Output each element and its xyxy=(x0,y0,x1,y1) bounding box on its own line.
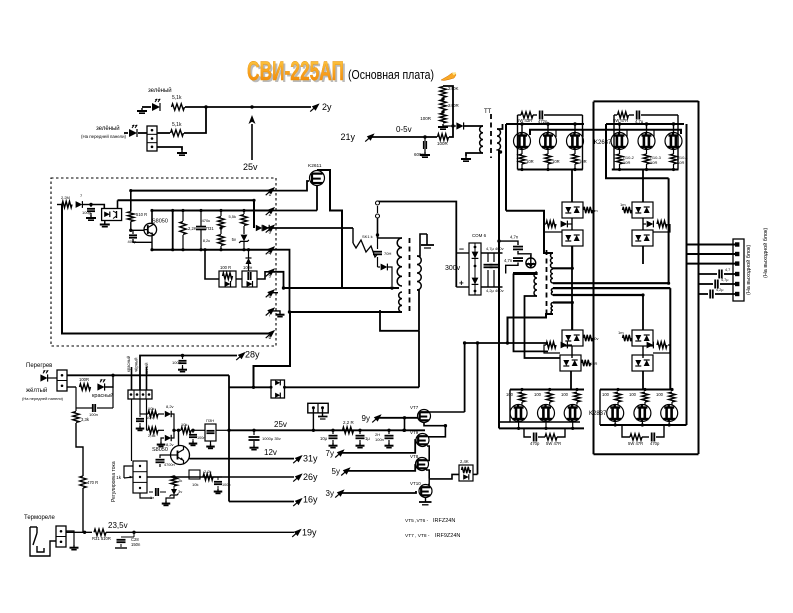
wire source bus 1 xyxy=(518,169,583,171)
wire xyxy=(91,205,104,209)
pin arrow 4 xyxy=(267,246,275,253)
svg-text:4,7μ: 4,7μ xyxy=(635,119,644,124)
resistor 2.2k xyxy=(203,474,213,480)
svg-text:+: + xyxy=(459,279,464,288)
junction dots power xyxy=(520,168,523,171)
svg-text:470к: 470к xyxy=(202,218,211,223)
wire xyxy=(613,115,615,170)
wire xyxy=(130,222,132,231)
resistor R10-1 10R xyxy=(673,150,675,155)
MOSFET Q bank1-3 xyxy=(567,133,584,150)
svg-text:1m: 1m xyxy=(592,208,598,213)
junction xyxy=(252,386,255,389)
capacitor 100n xyxy=(192,430,194,433)
resistor 100R xyxy=(440,113,446,123)
junction xyxy=(376,233,379,236)
thermal switch xyxy=(36,527,38,533)
arrow 2y xyxy=(312,103,320,110)
resistor 470k xyxy=(218,217,224,228)
svg-text:9y: 9y xyxy=(362,414,370,423)
wire xyxy=(599,390,601,426)
junction xyxy=(252,429,255,432)
capacitor 1000μ 35v xyxy=(253,430,255,435)
main transformer secondary S3 xyxy=(551,289,553,296)
diode block A xyxy=(562,202,583,218)
wire xyxy=(57,204,62,206)
aux primary lower xyxy=(399,292,402,312)
wire xyxy=(582,124,584,170)
svg-text:100н: 100н xyxy=(222,483,230,487)
svg-text:100: 100 xyxy=(602,392,610,397)
wire bus B xyxy=(505,124,507,211)
capacitor 1μ xyxy=(358,429,361,432)
wire xyxy=(254,312,291,387)
wire xyxy=(428,426,445,437)
svg-text:SK1 k: SK1 k xyxy=(362,234,373,239)
wire xyxy=(48,377,57,379)
aux core xyxy=(409,238,411,314)
ground xyxy=(465,156,467,159)
wire pin5 external xyxy=(272,272,284,288)
resistor + diode xyxy=(546,342,556,348)
diode xyxy=(246,258,252,264)
wire pin3 external xyxy=(272,227,354,229)
resistor 10R xyxy=(574,150,576,155)
svg-text:1н: 1н xyxy=(150,496,154,500)
svg-text:0-5v: 0-5v xyxy=(396,125,412,134)
svg-text:VT10: VT10 xyxy=(410,481,421,486)
svg-text:10R: 10R xyxy=(650,160,657,165)
arrow 9y xyxy=(374,414,382,421)
svg-text:S8050: S8050 xyxy=(152,447,168,453)
svg-text:12v: 12v xyxy=(264,448,277,457)
resistor R10-3 10R xyxy=(646,150,648,155)
svg-text:4,7: 4,7 xyxy=(725,268,730,272)
svg-text:(На передней панели): (На передней панели) xyxy=(22,396,64,401)
main transformer secondary S2 xyxy=(551,269,553,283)
wire xyxy=(606,124,669,178)
svg-text:100n: 100n xyxy=(375,437,384,442)
wire xyxy=(285,386,420,388)
svg-text:300v: 300v xyxy=(445,265,461,272)
wire xyxy=(158,413,164,415)
junction xyxy=(390,286,393,289)
wire xyxy=(443,86,453,126)
wire 16y line xyxy=(229,501,294,503)
wire xyxy=(642,246,644,264)
svg-text:70Н: 70Н xyxy=(384,251,391,256)
ground xyxy=(141,108,143,111)
wire VT7 top xyxy=(429,411,465,413)
resistor 100R xyxy=(438,134,449,140)
svg-text:П31: П31 xyxy=(206,226,214,231)
LED yellow (жёлтый) xyxy=(40,374,47,381)
wire xyxy=(378,417,418,419)
resistor 10R xyxy=(521,150,523,155)
wire source bus 2 xyxy=(612,169,679,171)
wire pin6 external xyxy=(272,292,279,294)
ground xyxy=(139,426,141,429)
current probe xyxy=(526,258,536,268)
wire gate bus 3 xyxy=(510,389,584,391)
svg-text:100н: 100н xyxy=(172,360,181,365)
wire xyxy=(427,446,430,461)
svg-text:5,5k: 5,5k xyxy=(228,214,236,219)
svg-text:5y: 5y xyxy=(332,467,340,476)
wire xyxy=(418,331,420,388)
wire xyxy=(509,390,511,423)
diode block D xyxy=(632,230,653,246)
wire gate stub xyxy=(626,130,628,137)
ground xyxy=(165,501,167,504)
MOSFET Q bank2-2 xyxy=(638,133,655,150)
twin connector xyxy=(308,403,328,413)
capacitor 600p xyxy=(424,137,426,141)
LED green front panel (зелёный) xyxy=(129,129,137,137)
wire xyxy=(157,132,170,134)
LED red (красный) xyxy=(97,383,104,390)
svg-text:10v: 10v xyxy=(592,336,598,341)
svg-text:2,4K: 2,4K xyxy=(460,459,469,464)
wire bus4 xyxy=(152,249,272,251)
svg-text:510 R: 510 R xyxy=(136,212,147,217)
wire xyxy=(138,132,147,134)
wire xyxy=(378,202,457,288)
svg-text:5W 47R: 5W 47R xyxy=(613,118,628,123)
ground xyxy=(217,489,219,492)
snubber resistor 5W 47R xyxy=(614,114,617,116)
svg-text:красный: красный xyxy=(92,392,113,399)
junction xyxy=(227,429,230,432)
wire xyxy=(131,367,133,390)
wire xyxy=(570,371,572,390)
junction xyxy=(132,531,135,534)
wire pin2 xyxy=(272,210,318,212)
svg-text:VT9: VT9 xyxy=(410,430,419,435)
svg-text:4700н: 4700н xyxy=(164,463,175,467)
wire pin4 external xyxy=(272,250,290,312)
svg-text:100R: 100R xyxy=(437,141,449,146)
svg-text:100R: 100R xyxy=(420,116,432,121)
svg-text:3y: 3y xyxy=(326,489,334,498)
ground xyxy=(73,545,75,548)
svg-text:3v: 3v xyxy=(178,489,182,494)
resistor 2.2K xyxy=(180,222,186,235)
wire xyxy=(425,498,427,503)
svg-text:10n: 10n xyxy=(146,415,153,420)
snubber capacitor 470p xyxy=(524,428,531,437)
svg-text:VT7: VT7 xyxy=(410,405,419,410)
wire bus A xyxy=(498,150,500,428)
MOSFET Q bank1-1 xyxy=(514,133,531,150)
zener 8.2v xyxy=(165,411,171,417)
wire xyxy=(506,263,518,274)
TT secondary xyxy=(497,129,501,150)
wire xyxy=(377,218,379,238)
svg-text:2,2k: 2,2k xyxy=(204,469,212,474)
resistor 10k xyxy=(181,427,191,433)
wire xyxy=(140,413,148,415)
wire gate distribution bus xyxy=(530,130,681,135)
power arrow 25v xyxy=(251,124,253,160)
svg-text:3: 3 xyxy=(269,230,272,236)
resistor 2.4k xyxy=(148,427,158,433)
wire xyxy=(146,367,148,390)
MOSFET Q bank2-1 xyxy=(611,133,628,150)
pin arrow 7 xyxy=(267,307,275,314)
svg-text:K2611: K2611 xyxy=(308,163,322,169)
resistor + diode xyxy=(546,221,556,227)
svg-text:100: 100 xyxy=(534,392,542,397)
svg-text:5W 47R: 5W 47R xyxy=(628,441,643,446)
svg-text:R31 510R: R31 510R xyxy=(92,536,111,541)
wire xyxy=(157,147,182,150)
svg-text:жёлтый: жёлтый xyxy=(26,387,47,394)
svg-text:470p: 470p xyxy=(530,441,540,446)
current transformer TT primary xyxy=(480,126,483,153)
wire xyxy=(312,408,314,431)
wire xyxy=(133,239,152,242)
wire xyxy=(521,124,523,133)
resistor 8.2k xyxy=(218,235,224,246)
main transformer secondary S4 xyxy=(551,303,553,315)
pin arrow 3 xyxy=(267,224,275,231)
wire xyxy=(456,286,469,288)
svg-text:21y: 21y xyxy=(340,132,355,142)
capacitor 4700n xyxy=(156,459,165,461)
arrow 19y xyxy=(294,529,302,536)
svg-text:2,4k: 2,4k xyxy=(148,433,156,438)
wire base xyxy=(131,229,144,231)
box capacitor 100n with diode xyxy=(242,271,257,287)
zener 3v xyxy=(171,489,177,495)
spark gap RV xyxy=(352,228,354,243)
wire xyxy=(104,221,106,224)
svg-text:26y: 26y xyxy=(303,472,318,482)
capacitor 70n xyxy=(377,235,379,249)
MOSFET VT10 xyxy=(419,485,432,498)
svg-text:S8050: S8050 xyxy=(152,219,168,225)
wire xyxy=(117,200,119,208)
wire xyxy=(172,211,174,250)
diode block C xyxy=(632,202,653,218)
svg-text:2k: 2k xyxy=(178,478,182,483)
wire xyxy=(236,278,242,280)
ground xyxy=(181,150,183,153)
arrow 31y xyxy=(295,455,303,462)
resistor 100 xyxy=(519,392,525,402)
svg-text:10k: 10k xyxy=(148,406,154,411)
svg-text:100: 100 xyxy=(629,392,637,397)
wire bottom boundary xyxy=(594,453,699,455)
wire xyxy=(146,399,148,430)
wire outer top xyxy=(594,100,699,102)
arrow 16y xyxy=(295,498,303,505)
svg-text:6: 6 xyxy=(269,294,272,300)
ground xyxy=(279,312,281,315)
transistor S8050 (2) xyxy=(171,446,190,465)
svg-text:4,7μ: 4,7μ xyxy=(721,278,728,282)
svg-text:IRFZ24N: IRFZ24N xyxy=(433,518,455,524)
wire primary lead bottom xyxy=(525,296,561,358)
svg-text:5W 43R: 5W 43R xyxy=(517,118,532,123)
junction xyxy=(497,239,500,242)
svg-text:7y: 7y xyxy=(326,449,334,458)
MOSFET VT8 xyxy=(416,458,429,471)
ground xyxy=(359,443,361,446)
wire 19y line xyxy=(66,531,92,533)
MOSFET Q bank4-2 xyxy=(634,405,651,422)
pin arrow 6 xyxy=(267,289,275,296)
wire source bus 3 xyxy=(499,427,584,429)
resistor 100 xyxy=(574,392,580,402)
wire TT sec top to bus xyxy=(497,124,503,129)
wire xyxy=(571,170,573,203)
wire 26y line xyxy=(147,476,294,478)
ground xyxy=(192,441,194,444)
wire xyxy=(229,386,254,388)
ground xyxy=(424,152,426,155)
junction xyxy=(451,124,454,127)
wire xyxy=(174,429,181,431)
resistor 470R xyxy=(80,476,86,488)
arrow 3y xyxy=(337,489,345,496)
wire xyxy=(131,399,133,461)
junction xyxy=(476,341,479,344)
resistor + diode xyxy=(647,342,654,349)
svg-text:(На выходной блок): (На выходной блок) xyxy=(762,228,769,278)
svg-text:4,2μ: 4,2μ xyxy=(716,288,723,292)
snubber resistor 5W 47R xyxy=(622,425,630,437)
junction xyxy=(499,150,502,153)
wire drain xyxy=(317,170,399,288)
brush icon xyxy=(441,73,456,81)
junction xyxy=(506,341,509,344)
svg-text:4,2μ 400v: 4,2μ 400v xyxy=(486,288,504,293)
wire xyxy=(571,246,573,330)
wire xyxy=(124,466,133,478)
svg-text:2,2K: 2,2K xyxy=(188,226,197,231)
svg-text:2,2 R: 2,2 R xyxy=(343,420,355,425)
svg-text:100: 100 xyxy=(561,392,569,397)
wire xyxy=(124,132,128,134)
wire xyxy=(254,386,272,388)
control box dashed border xyxy=(51,178,276,346)
ground bar xyxy=(318,416,328,418)
diode block E xyxy=(562,330,583,346)
svg-text:СВИ-225АП: СВИ-225АП xyxy=(247,56,344,86)
TT core xyxy=(490,114,492,158)
ground xyxy=(388,443,390,446)
rectifier 300v block xyxy=(469,243,481,295)
wire xyxy=(216,429,229,431)
resistor 100 xyxy=(547,392,553,402)
wire gate bus 1 xyxy=(517,124,519,170)
junction dots control box xyxy=(150,209,153,212)
wire xyxy=(477,343,479,474)
svg-text:25v: 25v xyxy=(243,162,258,172)
wire bus3 xyxy=(152,210,272,212)
svg-text:470 R: 470 R xyxy=(87,480,98,485)
diode xyxy=(456,122,463,129)
ground xyxy=(104,222,106,225)
wire xyxy=(341,440,416,453)
wire 28y xyxy=(140,356,237,391)
LED green (зелёный) xyxy=(152,103,160,111)
diode block H xyxy=(632,355,653,371)
wire emitter xyxy=(151,236,153,250)
MOSFET Q bank4-1 xyxy=(607,405,624,422)
wire primary lead top xyxy=(513,272,538,275)
junction xyxy=(191,429,194,432)
capacitor 100n xyxy=(75,387,77,402)
svg-text:Перегрев: Перегрев xyxy=(26,363,52,369)
wire 12v/31y xyxy=(190,458,295,460)
svg-text:100p: 100p xyxy=(82,210,92,215)
MOSFET Q bank1-2 xyxy=(540,133,557,150)
junction xyxy=(181,354,184,357)
svg-text:4,7μ 400v: 4,7μ 400v xyxy=(486,246,504,251)
ground small xyxy=(115,547,127,549)
svg-text:VT5 ,VT6 -: VT5 ,VT6 - xyxy=(405,518,429,524)
diode pair pin3 xyxy=(256,225,262,231)
junction xyxy=(111,374,114,377)
wire to connector pin3 xyxy=(687,263,736,265)
wire sec tap t3 xyxy=(553,287,670,289)
wire sec bottom xyxy=(508,314,554,343)
wire VT7 bottom xyxy=(424,423,445,426)
wire 25v vert xyxy=(228,375,230,501)
resistor 2k xyxy=(171,476,177,486)
svg-text:470p: 470p xyxy=(650,441,660,446)
svg-text:31y: 31y xyxy=(303,454,318,464)
wire gate stub xyxy=(555,130,557,137)
resistor 5.1k xyxy=(172,104,185,110)
wire xyxy=(510,421,580,423)
bridge rectifier xyxy=(271,380,285,398)
wire outer left xyxy=(593,102,595,455)
ground xyxy=(332,443,334,446)
svg-text:(На передней панели): (На передней панели) xyxy=(81,134,127,139)
svg-text:100: 100 xyxy=(656,392,664,397)
MOSFET Q bank3-3 xyxy=(564,405,581,422)
svg-text:красный: красный xyxy=(126,355,131,372)
wire 0-5v line xyxy=(371,136,437,138)
svg-text:8,2к: 8,2к xyxy=(203,238,211,243)
svg-text:2: 2 xyxy=(269,212,272,218)
resistor 100 xyxy=(615,392,621,402)
zener 8.2v xyxy=(165,435,171,441)
capacitor 100p xyxy=(90,205,92,208)
resistor 10k xyxy=(148,411,158,417)
svg-text:10R: 10R xyxy=(526,159,534,164)
wire xyxy=(184,107,206,133)
wire bus xyxy=(429,474,459,479)
svg-text:10R: 10R xyxy=(623,160,630,165)
svg-text:(Основная плата): (Основная плата) xyxy=(348,68,434,82)
wire xyxy=(619,124,621,133)
wire xyxy=(347,465,416,471)
wire xyxy=(449,126,453,137)
snubber resistor 5W 43R xyxy=(517,115,519,124)
capacitor 4,2μ 400v xyxy=(493,253,495,262)
resistor 2.2M xyxy=(62,201,72,207)
capacitor 400p xyxy=(132,230,134,234)
svg-text:100н: 100н xyxy=(197,436,205,440)
wire xyxy=(380,310,419,331)
ground xyxy=(442,124,444,127)
connector front panel xyxy=(147,126,157,151)
